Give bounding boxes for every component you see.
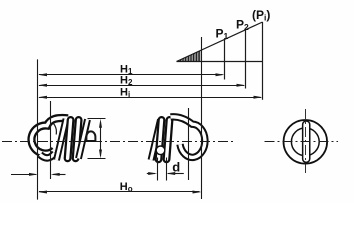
- load P1 vertical: [224, 40, 226, 80]
- d arrowheads: [148, 172, 157, 175]
- Hi arrowheads: [38, 96, 47, 99]
- label D (rotated, drawn as path): [86, 131, 95, 141]
- right hook loop of extension spring: [171, 117, 205, 158]
- coil loop A: [68, 120, 71, 158]
- svg-text:(Pi): (Pi): [252, 8, 270, 23]
- end view outer circle: [284, 120, 328, 164]
- force diagram baseline: [177, 61, 263, 63]
- initial tension hatched zone: [179, 51, 200, 61]
- H1 arrowheads: [38, 73, 47, 76]
- small left dimension arrow tails: [11, 174, 36, 176]
- hook-end extension line: [188, 108, 190, 180]
- D arrowheads: [99, 119, 102, 128]
- left hook inner curl line: [53, 123, 56, 134]
- d extension lines: [157, 158, 159, 181]
- first coil back slant wire: [57, 119, 67, 160]
- dimension line H1: [39, 74, 223, 76]
- svg-text:d: d: [172, 160, 180, 175]
- H2 arrowheads: [38, 84, 47, 87]
- right group entry slant wire: [151, 120, 161, 161]
- wire end cross-section circle: [156, 146, 165, 155]
- second left extension line: [50, 101, 52, 179]
- load P2 vertical: [245, 30, 247, 89]
- D witness ticks: [88, 118, 106, 120]
- left hook loop of extension spring: [31, 118, 68, 154]
- limit load (Pi) vertical: [262, 22, 264, 100]
- coil loop B: [76, 120, 79, 158]
- dimension line Hi: [39, 97, 261, 99]
- force diagram hypotenuse (load line): [177, 22, 263, 62]
- right free-length extension line: [201, 37, 203, 199]
- coil loop C: [159, 120, 162, 159]
- coil loop D: [167, 120, 170, 159]
- small left dimension arrowheads: [29, 173, 38, 176]
- wire diameter d arrow tails: [147, 173, 155, 175]
- H0 arrowheads: [38, 191, 47, 194]
- end view horizontal centerline: [265, 141, 339, 143]
- spring axis centerline (dash-dot): [2, 141, 234, 143]
- hook loop seen end-on (band): [302, 125, 311, 159]
- dimension line H2: [39, 85, 244, 87]
- mean diameter D dimension line: [100, 122, 102, 156]
- end view vertical centerline: [305, 109, 307, 174]
- end view inner circle: [291, 128, 319, 156]
- dimension line H0: [39, 191, 200, 193]
- left extension (witness) line: [37, 59, 39, 199]
- broken coil slant at body break: [79, 120, 88, 159]
- left hook wire end tail: [40, 153, 55, 158]
